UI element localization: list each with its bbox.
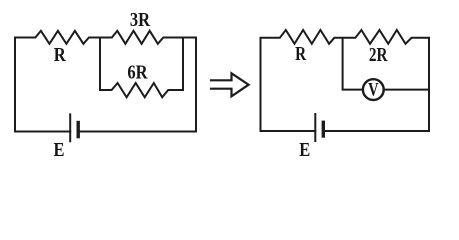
- svg-text:E: E: [299, 139, 310, 161]
- svg-text:V: V: [368, 79, 379, 100]
- svg-text:6R: 6R: [127, 61, 148, 83]
- svg-text:3R: 3R: [130, 9, 151, 31]
- svg-text:R: R: [295, 43, 306, 65]
- svg-text:R: R: [54, 44, 66, 66]
- svg-text:2R: 2R: [369, 44, 388, 66]
- svg-text:E: E: [54, 139, 65, 161]
